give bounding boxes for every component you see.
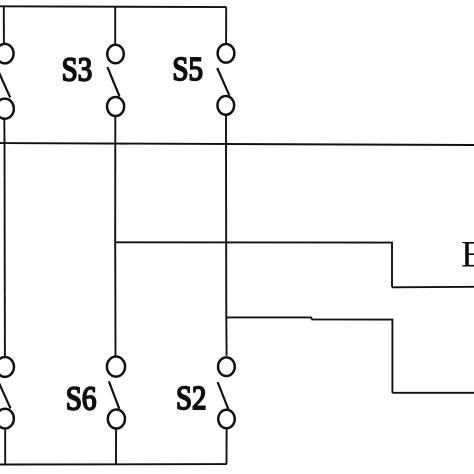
wire S3 column to node A — [114, 116, 116, 243]
wire right terminal upper horizontal — [392, 286, 474, 289]
wire node A to right terminal — [115, 242, 392, 287]
switch S2 blade — [218, 382, 229, 409]
svg-text:S6: S6 — [66, 381, 97, 418]
wire S5 column top — [225, 7, 227, 45]
switch S5 top contact — [218, 44, 235, 63]
svg-text:S2: S2 — [176, 380, 206, 417]
wire S5 column to node B — [225, 114, 227, 317]
svg-text:S3: S3 — [62, 51, 93, 88]
switch S1 top contact — [0, 44, 14, 64]
svg-text:E: E — [461, 235, 474, 276]
wire left column mid section — [4, 143, 6, 357]
switch S3 bottom contact — [107, 97, 124, 116]
wire S5 column node B to S2 — [225, 317, 227, 355]
switch S3 blade — [107, 67, 119, 96]
wire S6 to bottom bus — [115, 428, 117, 464]
wire S3 column node A to S6 — [114, 242, 116, 356]
switch S4 bottom contact — [0, 409, 14, 429]
switch S2 bottom contact — [218, 410, 235, 429]
wire mid bus — [0, 143, 474, 145]
switch S6 blade — [109, 381, 119, 408]
wire S1 column top — [3, 6, 5, 44]
switch S6 bottom contact — [108, 409, 125, 428]
switch S1 bottom contact — [0, 99, 14, 119]
switch S1 blade — [0, 72, 10, 98]
switch S4 top contact — [0, 357, 14, 377]
svg-text:S5: S5 — [172, 51, 203, 88]
switch S2 top contact — [218, 357, 235, 376]
wire S4 to bottom bus — [4, 428, 6, 465]
wire S2 to bottom bus — [226, 428, 228, 465]
wire top bus — [0, 5, 227, 8]
wire S1 to mid bus — [3, 118, 5, 144]
switch S5 blade — [217, 68, 229, 95]
switch S4 blade — [0, 382, 11, 409]
wire right terminal lower horizontal — [392, 392, 474, 394]
switch S3 top contact — [107, 45, 124, 64]
switch S5 bottom contact — [217, 96, 234, 115]
switch S6 top contact — [107, 357, 125, 377]
wire S3 column top — [114, 7, 116, 46]
wire bottom bus — [0, 463, 227, 465]
wire node B to right terminal — [226, 317, 392, 392]
